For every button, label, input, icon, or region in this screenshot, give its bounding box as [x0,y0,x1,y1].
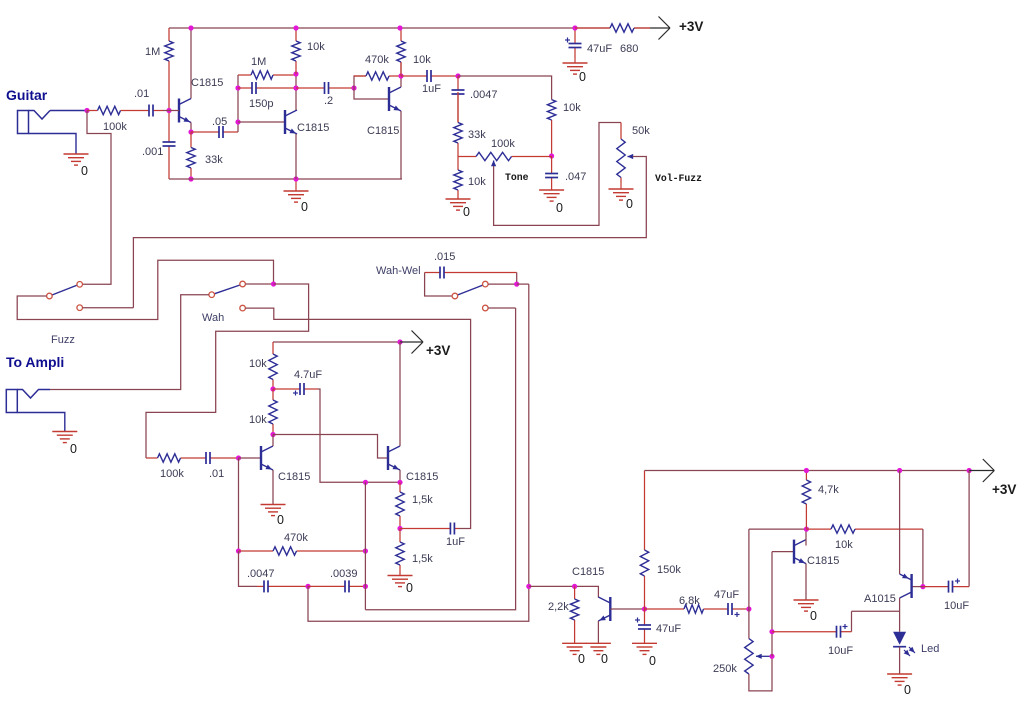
resistor 1,5k (lower, to ground) [396,529,404,576]
wire LED cathode to ground [899,647,901,674]
node 470k left [236,548,241,553]
resistor 150k (Q6 base) [640,471,648,610]
svg-text:4.7uF: 4.7uF [294,369,322,381]
transistor Q6 C1815 (mirrored) [598,597,610,621]
node tremolo input tap [526,584,531,589]
ground rail stage1, y=179 [169,178,402,180]
capacitor 10uF (left) [772,624,852,638]
wire fuzz lower throw to fuzz output return [83,307,134,309]
svg-text:10uF: 10uF [944,600,969,612]
svg-text:A1015: A1015 [864,593,896,605]
node wah-wel junction [514,282,519,287]
node 1,5k junction [397,526,402,531]
ground symbol 47uF trem [632,643,657,654]
wire Tone wiper [494,123,621,226]
svg-text:.0047: .0047 [470,89,498,101]
svg-text:100k: 100k [160,468,184,480]
svg-text:C1815: C1815 [278,471,310,483]
wire Q7 emitter to ground [805,564,807,600]
node ground rail [293,176,298,181]
wire A1015 base lead [912,586,923,588]
wire Q6 base to 150k node [610,608,644,610]
wire Q2 collector [295,74,297,110]
ground symbol 50k pot [609,182,634,200]
svg-text:Tone: Tone [505,172,529,183]
node A1015 base node [920,584,925,589]
resistor 10k (Q3 collector) [397,28,405,76]
svg-text:.2: .2 [324,95,333,107]
svg-text:0: 0 [277,513,284,527]
wire Q2 base [238,121,285,123]
svg-text:10k: 10k [249,414,267,426]
svg-text:470k: 470k [365,54,389,66]
node tone network top [455,73,460,78]
+3V arrow tremolo [969,459,994,482]
resistor 470k (Q3 feedback) [354,72,401,80]
wire guitar tip to 100k [50,110,87,112]
node 150p/.2 node [293,85,298,90]
svg-text:0: 0 [70,442,77,456]
power rail +3V (top), y=28 [169,27,610,29]
resistor 4,7k (Q7 collector) [802,471,810,530]
ground symbol 1,5k [388,576,413,587]
svg-text:1M: 1M [251,56,266,68]
wire wah common to To-Ampli [50,295,209,390]
node rail tap 10uF [967,468,972,473]
svg-text:0: 0 [904,683,911,697]
wire 50k wiper to fuzz return [133,157,646,308]
+3V arrow wah [400,331,423,354]
resistor 10k (tone, to ground) [454,156,462,199]
svg-text:1,5k: 1,5k [412,494,433,506]
wire 250k bottom loop [749,656,772,691]
capacitor .0047 (tone) [452,76,465,122]
wire wah-wel upper throw [488,283,517,285]
svg-text:10k: 10k [249,358,267,370]
svg-text:.001: .001 [142,146,163,158]
svg-text:150k: 150k [657,564,681,576]
node rail/collector Q1 [188,25,193,30]
ground symbol To Ampli jack [52,432,77,443]
capacitor .0039 (wah filter) [308,580,365,592]
ground symbol 2,2k [562,643,587,654]
svg-text:100k: 100k [491,138,515,150]
svg-text:0: 0 [556,201,563,215]
svg-text:47uF: 47uF [714,589,739,601]
resistor 10k (Q2 collector) [292,28,300,74]
resistor 6,8k [645,605,725,613]
svg-text:0: 0 [649,654,656,668]
ground symbol Q7 emitter [794,600,819,611]
node wah throw junction [271,281,276,286]
switch Wah-Wel (SPDT) [452,281,488,311]
wire .015 right to junction [516,273,518,285]
wire ampli sleeve to ground [17,413,65,432]
ground symbol guitar jack [64,154,89,165]
svg-text:+3V: +3V [679,19,703,34]
wire wah junction to wah stage input [146,284,309,458]
node rail tap 47uF [572,25,577,30]
svg-text:0: 0 [301,200,308,214]
switch Wah (SPDT) [209,281,246,311]
capacitor .0047 (wah filter) [257,580,308,592]
svg-text:6,8k: 6,8k [679,595,700,607]
wire Q5 emitter [399,470,401,482]
potentiometer 250k [745,639,753,674]
ground symbol 47uF [563,58,588,74]
svg-text:0: 0 [626,197,633,211]
transistor Q2 C1815 [285,110,297,134]
wire feedback column x=365 [364,482,366,609]
resistor 1M (Q1 base bias, x=169) [165,28,173,111]
svg-text:.05: .05 [212,116,227,128]
LED [893,632,915,656]
wire A1015 collector to LED [899,598,901,632]
svg-text:C1815: C1815 [807,555,839,567]
node 33k/bottom rail [188,176,193,181]
wire Q3 emitter to ground rail [400,111,402,179]
node Q3 collector node [398,73,403,78]
jack To Ampli output [6,390,50,413]
node 250k top node [746,606,751,611]
resistor 1M (feedback Q2) [238,71,296,79]
resistor 10k (tone right branch) [547,99,555,156]
resistor 10k (Q7 to A1015 base) [806,525,923,533]
wire 470k feedback loop up [354,76,366,88]
wire 4.7uF to Q5 emitter [318,389,400,482]
transistor Q5 C1815 [388,446,400,470]
wire Q3 base jog [354,88,389,99]
svg-text:0: 0 [579,70,586,84]
wire tremolo +3V rail [645,470,970,472]
switch Fuzz (SPDT) [47,282,83,311]
wire wah upper throw [245,283,273,285]
svg-text:.0047: .0047 [247,568,275,580]
node Q3 base node [351,85,356,90]
capacitor 150p (feedback) [238,82,296,94]
svg-text:0: 0 [578,652,585,666]
capacitor .015 (wah-wel) [425,267,517,279]
svg-text:10k: 10k [307,41,325,53]
ground symbol Q4 emitter [261,505,286,516]
svg-text:.047: .047 [565,171,586,183]
capacitor .2 (Q2 to Q3) [296,82,354,94]
resistor 100k (wah input) [146,454,199,462]
wire 10uF branch to collector [852,610,900,612]
node 2,2k tap [572,584,577,589]
capacitor 1uF (output coupling) [401,70,458,82]
node Q1 emitter [188,129,193,134]
wire .015 left to common [425,273,452,297]
ground symbol Q6 emitter [586,643,611,654]
capacitor .047 (tone to ground) [545,156,558,190]
ground symbol tone divider [446,199,471,210]
node Q4 base [236,455,241,460]
wire 470k left down to caps row [239,551,258,586]
svg-text:150p: 150p [249,98,273,110]
node 10uF tap [769,629,774,634]
jack Guitar input [18,111,51,134]
node Q4 collector node [270,432,275,437]
svg-text:0: 0 [81,164,88,178]
svg-text:4,7k: 4,7k [818,484,839,496]
capacitor 47uF (supply bypass) [565,28,582,58]
svg-text:C1815: C1815 [297,122,329,134]
wire wah-wel junction right [517,283,529,285]
resistor 470k (wah feedback) [239,547,366,555]
node wah +3V tap [397,339,402,344]
svg-text:C1815: C1815 [367,125,399,137]
svg-text:+3V: +3V [992,482,1016,497]
node Q2 base junction [235,119,240,124]
svg-text:250k: 250k [713,663,737,675]
ground symbol .047 [539,190,564,201]
wire Q5 collector to +3V [399,342,401,446]
wire Q7 base column [771,552,773,657]
potentiometer 100k Tone [458,152,552,160]
wire fuzz common to wah loop [17,260,273,319]
svg-text:C1815: C1815 [406,471,438,483]
node rail tap Q2 [293,25,298,30]
wire Q4 collector to Q5 base [273,435,388,459]
node 250k wiper node [769,654,774,659]
transistor Q4 C1815 [261,446,273,470]
wire Q7 collector [805,529,807,545]
wire tone top to 10k column [458,76,552,99]
wire Q2 emitter to ground rail [295,134,297,179]
transistor Q3 C1815 [389,87,401,111]
svg-text:680: 680 [620,43,638,55]
svg-text:To Ampli: To Ampli [6,354,64,370]
svg-text:10k: 10k [468,176,486,188]
svg-text:Wah-Wel: Wah-Wel [376,265,421,277]
resistor 680 (supply) [575,24,650,32]
node guitar input [84,108,89,113]
svg-text:0: 0 [810,609,817,623]
node 1M feedback node [293,71,298,76]
svg-text:1uF: 1uF [422,83,441,95]
svg-text:0: 0 [406,581,413,595]
wire wah +3V rail [273,341,400,343]
svg-text:Vol-Fuzz: Vol-Fuzz [655,173,702,184]
svg-text:10k: 10k [413,54,431,66]
wire Q6 emitter to ground [597,621,599,643]
wire A1015 emitter to +3V [899,471,901,575]
capacitor .01 (wah input) [199,452,239,464]
wire Q4 base lead [239,457,262,459]
wire 250k column to Q7 collector node [748,529,750,639]
svg-text:33k: 33k [468,129,486,141]
capacitor 47uF (Q6 base to ground) [635,609,651,643]
wire Q4 collector [272,435,274,447]
node tone pot right [549,153,554,158]
wire wah-wel lower throw [488,307,515,309]
svg-text:1M: 1M [145,46,160,58]
resistor 100k (input) [87,106,145,114]
svg-text:100k: 100k [103,121,127,133]
wire Q3 collector [400,62,402,87]
svg-text:33k: 33k [205,154,223,166]
node Q5 emitter [397,480,402,485]
capacitor 47uF (coupling) [724,603,749,617]
svg-text:1,5k: 1,5k [412,553,433,565]
svg-text:+3V: +3V [426,343,450,358]
node feedback column top [363,480,368,485]
wire rail right segment to 680 [634,27,650,29]
resistor 1,5k (Q5 emitter upper) [396,482,404,528]
node Q7 collector node [804,527,809,532]
transistor Q1 C1815 [179,99,191,123]
ground symbol stage1 [284,179,309,202]
node wah divider mid [270,386,275,391]
wire node column x=238 [237,75,239,132]
svg-text:.01: .01 [134,88,149,100]
wire Q4 base to 470k row [238,458,240,551]
wire 10k to A1015 base [922,529,924,587]
potentiometer 50k Vol-Fuzz [617,123,625,183]
svg-text:Fuzz: Fuzz [51,334,75,346]
capacitor 10uF (right) [923,579,969,593]
svg-text:50k: 50k [632,125,650,137]
node rail tap Q3 [397,25,402,30]
svg-text:2,2k: 2,2k [548,601,569,613]
wire caps mid loop to wah-wel junction [308,284,529,621]
wire input to fuzz switch [83,111,112,285]
resistor 33k (tone) [454,92,462,156]
svg-text:1uF: 1uF [446,536,465,548]
wire Q1 collector to rail [190,28,192,99]
transistor Q8 A1015 (PNP, mirrored) [900,574,912,599]
ground symbol LED [887,674,912,685]
wire Q4 emitter to ground [272,470,274,504]
svg-text:Led: Led [921,643,939,655]
capacitor 4.7uF (wah feedback) [273,383,318,396]
wire tremolo input row [529,586,599,597]
svg-text:10k: 10k [563,102,581,114]
node Q1 base [166,108,171,113]
capacitor .05 (Q1 emitter to Q2) [191,126,238,138]
wire input cap to Q1 base node [163,110,179,112]
svg-text:10uF: 10uF [828,645,853,657]
wire wah lower throw to wah supply [245,308,470,528]
svg-text:C1815: C1815 [191,77,223,89]
svg-text:470k: 470k [284,532,308,544]
capacitor .01 (input coupling) [145,105,163,117]
node rail tap A1015 [897,468,902,473]
svg-text:0: 0 [601,652,608,666]
resistor 2,2k (to ground) [570,586,578,643]
node Q6 base node [642,606,647,611]
svg-text:Guitar: Guitar [6,87,48,103]
wire Q1 emitter stub [190,123,192,133]
node 470k right [363,548,368,553]
svg-text:0: 0 [463,205,470,219]
svg-text:47uF: 47uF [587,43,612,55]
svg-text:10k: 10k [835,539,853,551]
node 150p junction [235,85,240,90]
svg-text:.015: .015 [434,251,455,263]
svg-text:47uF: 47uF [656,623,681,635]
svg-text:.01: .01 [209,468,224,480]
capacitor .001 (base to ground) [163,111,176,180]
node rail tap 4,7k [804,468,809,473]
capacitor 1uF (wah out to switched supply) [400,523,459,535]
transistor Q7 C1815 [794,540,806,564]
wire 10uF right to rail [968,471,970,587]
wire Q7 base lead [772,551,794,553]
resistor 33k (Q1 emitter) [187,132,195,179]
+3V arrow top [650,17,670,40]
svg-text:Wah: Wah [202,312,224,324]
wire guitar sleeve to ground [29,134,77,154]
node caps mid [305,584,310,589]
wire caps right to wah-wel lower throw [365,308,515,610]
resistor 10k (wah divider upper) [269,342,277,389]
resistor 10k (wah divider lower) [269,389,277,435]
svg-text:C1815: C1815 [572,566,604,578]
node caps right [363,584,368,589]
svg-text:.0039: .0039 [330,568,358,580]
